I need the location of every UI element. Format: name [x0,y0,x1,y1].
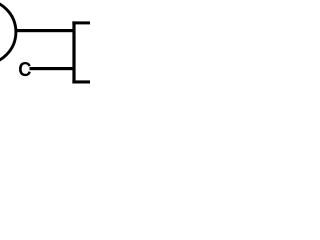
wire from node C to box lower input [30,67,76,70]
node C label [19,62,31,76]
wire from generator to box top input [15,29,76,32]
flip-flop box U1 left edge [72,21,75,83]
flip-flop box U1 top edge [72,21,90,24]
generator circle G (clock source, clipped at left edge) [0,0,16,64]
flip-flop box U1 bottom edge [72,80,90,83]
